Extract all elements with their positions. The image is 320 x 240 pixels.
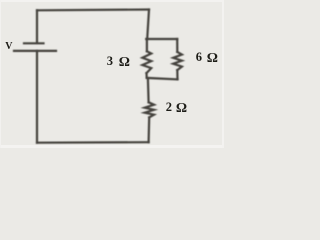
wire into 3-ohm resistor (146, 39, 148, 51)
svg-text:3: 3 (107, 54, 113, 68)
svg-text:V: V (5, 41, 13, 52)
svg-text:Ω: Ω (176, 101, 187, 116)
wire into 6-ohm resistor (176, 39, 178, 52)
node B: bottom join wire (horizontal) (147, 78, 178, 80)
resistor 3 ohm (zigzag) (142, 51, 151, 73)
wire right vertical from top wire to branch node (147, 10, 149, 40)
wire bottom (37, 141, 149, 144)
node A: top branch wire (horizontal) (146, 38, 177, 40)
wire top (37, 8, 149, 11)
svg-text:Ω: Ω (119, 55, 130, 70)
wire from 2-ohm resistor to bottom wire (148, 117, 151, 142)
wire from 3-ohm resistor to join node (145, 73, 147, 78)
svg-text:2: 2 (166, 100, 172, 114)
svg-text:6: 6 (196, 50, 202, 64)
wire from join node down to 2-ohm resistor (147, 79, 150, 103)
battery V short top plate (24, 42, 44, 44)
svg-text:Ω: Ω (207, 51, 218, 66)
wire from 6-ohm resistor to join node (176, 70, 178, 79)
resistor 2 ohm (zigzag) (145, 102, 154, 117)
battery V long bottom plate (14, 50, 56, 52)
wire left upper (corner to battery top plate) (36, 10, 38, 43)
resistor 6 ohm (zigzag) (173, 52, 182, 70)
wire left lower (battery to bottom-left corner) (36, 51, 38, 143)
